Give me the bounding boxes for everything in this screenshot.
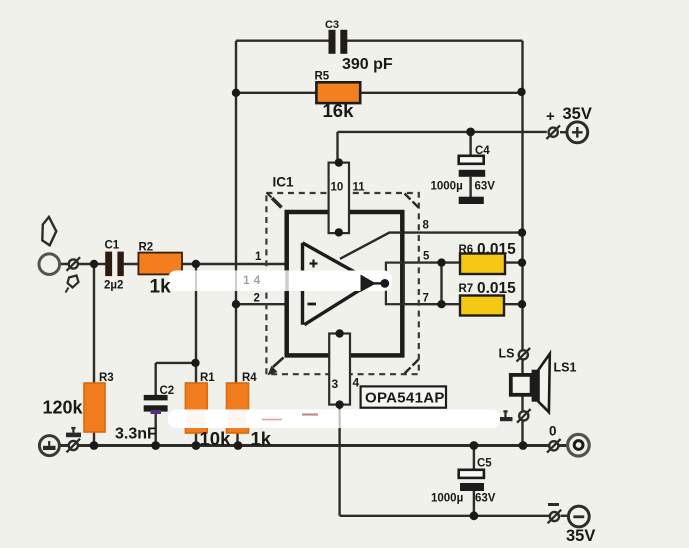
svg-text:1000µ: 1000µ [431, 493, 463, 505]
svg-text:C5: C5 [477, 458, 492, 470]
svg-text:10: 10 [331, 182, 344, 194]
svg-text:0.015: 0.015 [477, 241, 516, 258]
svg-text:R1: R1 [200, 372, 215, 384]
svg-text:63V: 63V [475, 181, 496, 193]
svg-text:OPA541AP: OPA541AP [365, 390, 445, 407]
svg-text:0: 0 [549, 424, 557, 439]
svg-text:14: 14 [243, 273, 264, 287]
svg-text:R5: R5 [315, 71, 330, 83]
svg-text:1: 1 [255, 251, 262, 263]
svg-text:390 pF: 390 pF [342, 56, 393, 73]
svg-text:R3: R3 [99, 372, 114, 384]
svg-text:1k: 1k [150, 277, 172, 298]
svg-text:8: 8 [423, 220, 430, 232]
svg-text:120k: 120k [43, 398, 84, 418]
svg-text:2µ2: 2µ2 [104, 280, 123, 292]
svg-text:5: 5 [423, 251, 430, 263]
svg-text:C1: C1 [105, 240, 120, 252]
svg-text:R7: R7 [459, 283, 474, 295]
svg-text:7: 7 [423, 293, 429, 305]
svg-text:R4: R4 [242, 372, 257, 384]
svg-text:4: 4 [353, 376, 360, 390]
svg-text:63V: 63V [475, 493, 496, 505]
svg-text:16k: 16k [323, 100, 355, 121]
svg-text:3: 3 [332, 377, 339, 391]
svg-text:R2: R2 [139, 242, 154, 254]
svg-text:LS1: LS1 [554, 361, 577, 375]
svg-text:LS: LS [499, 347, 515, 361]
svg-text:IC1: IC1 [273, 175, 295, 190]
svg-text:1k: 1k [251, 428, 272, 449]
svg-text:0.015: 0.015 [477, 280, 516, 297]
svg-text:+: + [546, 108, 555, 125]
svg-text:10k: 10k [200, 428, 232, 449]
svg-text:2: 2 [254, 293, 260, 305]
svg-text:C2: C2 [160, 385, 175, 397]
svg-text:35V: 35V [563, 105, 592, 123]
svg-text:11: 11 [353, 182, 366, 194]
svg-text:C3: C3 [325, 19, 339, 31]
svg-text:R6: R6 [459, 244, 474, 256]
svg-text:35V: 35V [566, 527, 595, 545]
svg-text:3.3nF: 3.3nF [115, 426, 157, 443]
svg-text:C4: C4 [475, 145, 490, 157]
svg-text:1000µ: 1000µ [431, 181, 463, 193]
